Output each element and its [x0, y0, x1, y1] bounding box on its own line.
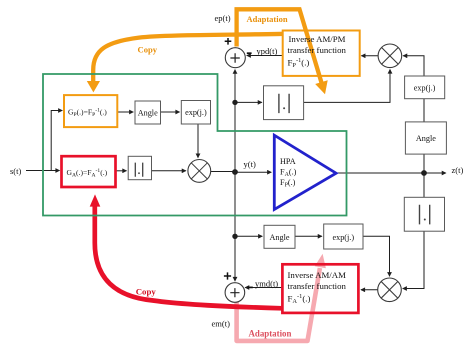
- wire abs to multiplier M1: [152, 170, 186, 172]
- wire exp down to multiplier M1: [197, 124, 199, 157]
- svg-text:ymd(t): ymd(t): [255, 278, 278, 288]
- wire Angle to exp: [161, 111, 180, 113]
- amplifier HPA triangle: [274, 135, 336, 209]
- copy arrow (orange, from AM/PM box to Gp): [87, 34, 283, 93]
- multiplier M3 (bottom right): [378, 278, 402, 302]
- wire node z down to abs B2: [423, 173, 425, 197]
- wire y(t) to HPA: [235, 171, 271, 173]
- summing junction S2 (em): [225, 283, 245, 303]
- wire node y down-branch to Angle3: [235, 235, 262, 237]
- svg-text:Angle: Angle: [138, 109, 158, 118]
- block exp3 (below HPA): [324, 224, 363, 249]
- wire Angle2 to exp2: [423, 99, 425, 122]
- wire M3 to red box: [361, 289, 378, 291]
- svg-text:ypd(t): ypd(t): [257, 46, 278, 56]
- block inverse AM/AM (red box) border: [282, 264, 358, 313]
- block exp(j.) (top-left chain): [181, 101, 210, 125]
- wire M2 output to orange box: [361, 55, 378, 57]
- wire Gp to Angle: [118, 111, 134, 113]
- sign minus at S1: [247, 52, 252, 54]
- wire exp3 to multiplier M3: [363, 236, 390, 276]
- multiplier M1 (in green box): [188, 160, 211, 183]
- svg-text:transfer function: transfer function: [288, 281, 347, 291]
- svg-text:y(t): y(t): [244, 159, 256, 169]
- sign plus at S1: [225, 38, 232, 45]
- junction node on y line (to Angle3): [232, 234, 237, 239]
- svg-text:exp(j.): exp(j.): [185, 108, 207, 117]
- block abs B2 |.| (right chain): [404, 197, 444, 231]
- block inverse AM/PM (orange box): [283, 31, 360, 76]
- sign plus at S2: [224, 272, 231, 279]
- wire main vertical y(t) line into S1 and S2: [234, 70, 236, 281]
- svg-text:FP(.): FP(.): [280, 178, 296, 189]
- wire node y up-branch to abs B1: [235, 101, 262, 103]
- wire Angle3 to exp3: [295, 235, 321, 237]
- wire HPA output to z(t): [337, 172, 446, 174]
- wire abs B1 to multiplier M2: [304, 70, 390, 103]
- block exp2 (right chain): [405, 76, 445, 99]
- svg-text:z(t): z(t): [452, 165, 464, 175]
- svg-text:exp(j.): exp(j.): [414, 84, 436, 93]
- svg-text:transfer function: transfer function: [288, 45, 347, 55]
- svg-text:Angle: Angle: [416, 134, 436, 143]
- svg-text:ep(t): ep(t): [215, 13, 231, 23]
- svg-text:Angle: Angle: [269, 233, 289, 242]
- wire tee from s(t) up to Gp input: [51, 111, 62, 171]
- svg-text:Adaptation: Adaptation: [249, 329, 292, 339]
- junction node y(t): [232, 169, 238, 175]
- svg-text:Adaptation: Adaptation: [247, 14, 288, 24]
- block Angle (top-left chain): [135, 101, 161, 124]
- svg-text:Copy: Copy: [138, 44, 158, 54]
- multiplier M2 (top right): [378, 44, 402, 68]
- block Angle3 (below HPA): [264, 225, 295, 248]
- junction node z(t): [421, 170, 427, 176]
- wire exp2 up and left into M2: [403, 56, 424, 76]
- sign minus at S2: [248, 286, 253, 288]
- junction node on y line (to B1): [232, 100, 237, 105]
- summing junction S1 (ep): [225, 48, 245, 68]
- block inverse AM/AM (red box) fill: [282, 264, 358, 313]
- adaptation arrow (pink, from em into AM/AM box): [237, 254, 326, 341]
- adaptation arrow (orange, from ep line into AM/PM box): [237, 9, 328, 94]
- copy arrow (red, from AM/AM box to GA): [90, 194, 283, 308]
- wire ypd(t) orange box to S1: [247, 55, 283, 57]
- svg-text:s(t): s(t): [10, 166, 22, 176]
- svg-text:em(t): em(t): [212, 319, 231, 329]
- wire abs B2 down and left into M3: [403, 231, 424, 288]
- svg-text:Inverse AM/PM: Inverse AM/PM: [289, 34, 346, 44]
- svg-text:Copy: Copy: [136, 287, 157, 297]
- text in inverse AM/PM box: [288, 34, 347, 69]
- wire M1 output to node y: [211, 171, 235, 173]
- svg-text:Inverse AM/AM: Inverse AM/AM: [288, 270, 347, 280]
- text in inverse AM/AM box: [288, 270, 347, 305]
- block abs |.| (small, in green box): [128, 156, 151, 179]
- wire s(t) input to GA: [26, 170, 60, 172]
- block abs B1 |.| (above HPA): [264, 86, 304, 120]
- block Angle2 (right chain): [405, 122, 446, 154]
- svg-text:HPA: HPA: [280, 157, 296, 166]
- block GA (red predistorter amplitude box): [62, 156, 116, 187]
- wire GA to abs: [116, 170, 127, 172]
- svg-text:exp(j.): exp(j.): [332, 233, 354, 242]
- green predistorter outline (step-shaped box): [43, 74, 347, 216]
- wire node z up to Angle2: [423, 154, 425, 173]
- svg-text:FA(.): FA(.): [280, 167, 297, 178]
- block Gp (orange predistorter phase box): [64, 95, 117, 127]
- wire ymd(t) red box to S2: [245, 287, 282, 289]
